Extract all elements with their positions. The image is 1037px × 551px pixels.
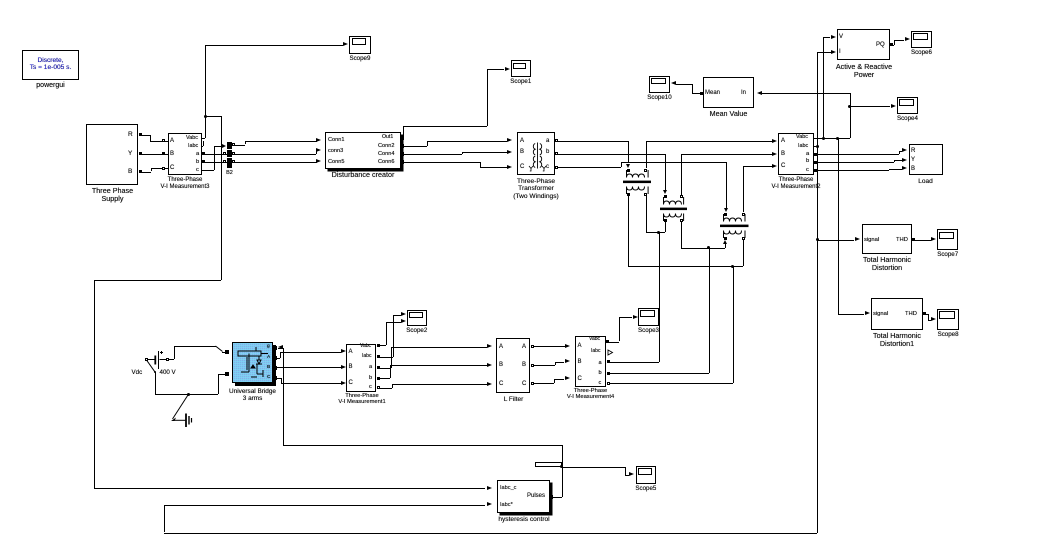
text hc-in2: [500, 502, 513, 508]
block Disturbance creator: [325, 132, 401, 169]
wire THD1 to Scope8: [923, 314, 928, 315]
wire to Mean Value In: [759, 93, 850, 94]
junction Scope4 branch junction: [848, 105, 851, 108]
arrowhead into meas1 B: [341, 365, 346, 369]
wire Mean to Scope10: [692, 93, 703, 94]
port meas4 c out: [607, 382, 610, 385]
1-phase transformer T3: [720, 212, 749, 240]
wire meas3 B stub: [164, 154, 168, 155]
wire meas3 C stub: [164, 168, 168, 169]
wire row c seg1: [558, 167, 621, 168]
arrowhead into Tr C: [507, 165, 512, 169]
text lf-B1: [499, 362, 503, 369]
text meas4-C: [578, 376, 582, 383]
port T1 bottom-right terminal: [644, 193, 647, 196]
block Load: [909, 144, 943, 175]
wire into V input: [823, 37, 830, 38]
wire node b down to meas4 b row: [709, 248, 710, 373]
port T3 bottom-left terminal: [724, 237, 727, 240]
port supply Y port: [139, 152, 142, 155]
wire T2 sec left to node a: [665, 222, 666, 232]
wire row c dive: [726, 162, 727, 208]
text meas2-b: [806, 158, 809, 164]
text meas3-Vabc: [186, 135, 198, 141]
text meas1-a: [369, 364, 372, 370]
wire meas3 c loop to bus top: [202, 170, 214, 171]
wire meas1 Vabc to Scope2 lower: [377, 345, 386, 346]
arrowhead into Scope1: [505, 67, 510, 71]
arrowhead into THD signal: [855, 237, 860, 241]
text bridge-B: [267, 365, 270, 370]
port T2 top-right terminal: [680, 195, 683, 198]
text meas3-a: [196, 151, 199, 157]
text Vdc-label: [132, 370, 143, 377]
text lf-A2: [522, 344, 526, 351]
port bridge minus port: [225, 372, 229, 376]
wire to THD signal: [817, 240, 854, 241]
port Out1 port: [400, 136, 404, 140]
text mv-In: [741, 90, 746, 97]
wire L A to meas4: [531, 346, 565, 347]
wire into bridge plus: [222, 352, 226, 353]
wire into I input: [817, 52, 831, 53]
block Three-Phase Transformer (Two Windings): [517, 132, 555, 175]
port meas1 Iabc out: [377, 355, 380, 358]
text lf-A1: [499, 344, 503, 351]
text bridge-A: [267, 355, 270, 360]
port Mean out port: [700, 92, 703, 95]
arrowhead into Scope6: [905, 37, 910, 41]
text meas2-A: [781, 138, 785, 145]
arrowhead into meas1 C: [341, 381, 346, 385]
arrowhead into Load Y: [902, 158, 907, 162]
port T3 bottom-right terminal: [742, 237, 745, 240]
arrowhead into meas4 C: [565, 376, 570, 380]
wire meas3 a to bus: [202, 154, 227, 155]
port meas3 B port sq: [162, 152, 165, 155]
wire THD to Scope7: [912, 240, 931, 241]
wire T3 sec left feed: [725, 244, 726, 248]
text dc-label: [320, 171, 406, 179]
text dc-Conn2: [378, 143, 394, 149]
wire dc bottom rail: [155, 394, 217, 395]
text tr-b: [546, 149, 549, 156]
wire bridge B out: [277, 367, 341, 368]
text meas3-b: [196, 159, 199, 165]
port L filter B out: [531, 364, 534, 367]
port meas4 Vabc out: [606, 340, 609, 343]
text tr-c: [546, 164, 549, 171]
text hc-label: [488, 516, 560, 523]
block powergui: [22, 50, 79, 80]
diagonal wire into bridge plus: [215, 345, 227, 354]
block Active & Reactive Power: [837, 29, 890, 61]
text lf-C1: [499, 381, 503, 388]
junction node a junction: [657, 231, 660, 234]
arrowhead into L C: [487, 382, 492, 386]
wire pulses branch to Scope5: [562, 467, 625, 468]
text load-B: [911, 166, 915, 173]
wire meas1 Iabc to Scope2 upper: [377, 357, 393, 358]
text supply-R: [128, 131, 133, 138]
wire T3 sec right down: [743, 240, 744, 266]
wire bridge A out: [277, 358, 280, 359]
winding config glyphs: [528, 165, 548, 172]
wire bus to conn3: [232, 154, 316, 155]
wire feedback up: [164, 505, 165, 533]
text tr-A: [520, 138, 524, 145]
arrowhead into T2 top-left: [663, 190, 667, 194]
text meas4-B: [578, 359, 582, 366]
transformer coil icon: [527, 142, 548, 169]
port meas2 c out: [814, 169, 817, 172]
port meas2 b out: [814, 161, 817, 164]
junction pulses-scope5 junction: [560, 465, 563, 468]
arrowhead into Scope10: [671, 81, 676, 85]
wire row a dive: [628, 141, 629, 164]
port meas2 a out: [814, 153, 817, 156]
wire bus to Conn5: [232, 162, 317, 163]
text dc-Conn1: [328, 137, 344, 143]
text bridge-label: [216, 388, 289, 402]
scope Scope9: [349, 36, 370, 54]
wire meas2 b to Load Y: [814, 162, 894, 163]
scope Scope1: [511, 60, 531, 77]
wire PQ to Scope6: [890, 45, 894, 46]
port Conn2 port: [400, 144, 404, 148]
wire V down to THD1: [838, 138, 839, 314]
wire dc to bridge minus: [218, 374, 219, 395]
port L filter C out: [531, 382, 534, 385]
junction node b junction: [707, 246, 710, 249]
text meas2-C: [781, 163, 785, 170]
text load-Y: [911, 157, 915, 164]
arrowhead into Scope5: [629, 472, 634, 476]
wire T2 sec right to node b: [681, 222, 682, 248]
text dc-conn3: [328, 148, 343, 154]
arrowhead into meas4 A: [565, 344, 570, 348]
1-phase transformer T1: [623, 168, 652, 196]
block Universal Bridge: [232, 342, 273, 383]
port meas1 b out: [377, 377, 380, 380]
wire meas3 Iabc stub: [202, 146, 203, 147]
scope Scope2: [407, 310, 428, 326]
port meas3 b out: [202, 160, 205, 163]
text meas3-Iabc: [188, 143, 198, 149]
block L Filter: [496, 338, 530, 394]
text meas2-a: [806, 151, 809, 157]
port meas1 c out: [377, 386, 380, 389]
wire pulses to g: [278, 348, 283, 349]
text meas4-Vabc: [589, 337, 600, 343]
scope Scope7: [937, 229, 958, 250]
arrowhead into THD1 signal: [865, 311, 870, 315]
port bridge B port: [273, 366, 277, 370]
text thd-label: [850, 256, 924, 272]
port bus left mid port: [223, 152, 226, 155]
arrowhead into T1 top-left: [626, 164, 630, 168]
wire row b rise: [681, 154, 682, 195]
wire diagonal to ground: [169, 393, 191, 423]
text tr-B: [520, 149, 524, 156]
block Three-Phase V-I Measurement2: [778, 133, 814, 175]
port THD out port: [912, 238, 915, 241]
junction ground junction: [187, 393, 190, 396]
text bridge-C: [267, 375, 270, 380]
wire row a seg1: [558, 141, 628, 142]
wire L B to meas4: [531, 365, 555, 366]
text meas3-B: [170, 151, 174, 158]
text meas1-label: [332, 393, 392, 406]
wire Conn2 to Tr A: [404, 146, 427, 147]
text supply-B: [128, 168, 132, 175]
junction Vabc branch junction: [204, 115, 207, 118]
port supply B port: [139, 170, 142, 173]
arrowhead into L B: [487, 363, 492, 367]
junction Iabc-THD junction: [816, 238, 819, 241]
wire bottom long feedback: [164, 533, 817, 534]
port T2 top-left terminal: [664, 195, 667, 198]
text meas2-B: [781, 151, 785, 158]
text pq-label: [828, 63, 900, 79]
text meas1-c: [369, 384, 372, 390]
wire row c seg2: [743, 166, 772, 167]
DC voltage source Vdc battery: [140, 342, 200, 398]
wire supply B to meas3 C: [141, 172, 151, 173]
wire Vdc plus to corner: [168, 359, 174, 360]
text thd1-label: [858, 332, 936, 348]
text load-R: [911, 148, 915, 155]
text meas1-A: [349, 349, 353, 356]
text meas2-label: [760, 177, 832, 190]
wire node c down to meas4 c row: [733, 266, 734, 383]
text powergui-label: [14, 82, 87, 90]
wire meas3 Vabc to Scope9: [202, 138, 205, 139]
port T2 bottom-left terminal: [664, 219, 667, 222]
port tr c out: [555, 166, 558, 169]
text hc-Pulses: [527, 493, 545, 500]
arrowhead into hysteresis Iabc_c: [487, 486, 492, 490]
block Three-Phase V-I Measurement1: [346, 344, 376, 392]
wire meas2 c to Load B: [814, 170, 889, 171]
port bus right bot port: [232, 160, 235, 163]
text dc-Out1: [382, 135, 393, 141]
text dc-Conn4: [378, 151, 394, 157]
arrowhead into meas4 B: [565, 359, 570, 363]
junction Vabc-THD1 junction: [836, 137, 839, 140]
arrowhead into Load B: [902, 166, 907, 170]
block Three-Phase V-I Measurement4: [575, 336, 606, 387]
text thd1-THD: [905, 311, 917, 317]
text dc-Conn5: [328, 159, 344, 165]
universal bridge internal circuit icon: [234, 344, 272, 382]
junction Iabc junction: [816, 145, 819, 148]
text meas1-b: [369, 375, 372, 381]
port bridge g port: [273, 346, 277, 350]
arrowhead into Scope2 in2: [401, 319, 406, 323]
wire row b dive: [665, 154, 666, 191]
port meas4 b out: [607, 372, 610, 375]
wire row c rise: [743, 166, 744, 212]
arrowhead into T3 bottom-left: [723, 240, 727, 244]
junction Vabc-Vin junction: [822, 137, 825, 140]
port T3 top-right terminal: [742, 213, 745, 216]
text meas3-c: [196, 167, 199, 173]
meas4 Iabc unconnected out: [607, 349, 614, 356]
arrowhead into meas2 A: [772, 139, 777, 143]
block hysteresis control: [497, 480, 550, 513]
wire T1 sec left down: [628, 196, 629, 266]
port PQ out port: [890, 43, 893, 46]
port bridge C port: [273, 376, 277, 380]
arrowhead into Scope9: [343, 42, 348, 46]
port pulses port: [549, 495, 553, 499]
text lf-label: [496, 396, 531, 403]
bus B2: [227, 142, 232, 169]
port tr a out: [555, 139, 558, 142]
text Vdc-value: [160, 370, 176, 377]
block Total Harmonic Distortion: [862, 224, 913, 254]
text thd1-signal: [873, 311, 888, 317]
port THD1 out port: [923, 312, 926, 315]
wire node a down to meas4 a row: [659, 232, 660, 362]
wire meas4 c row: [607, 383, 733, 384]
text meas4-c: [599, 380, 602, 386]
wire meas1 b to L filter: [377, 378, 390, 379]
scope Scope8: [937, 309, 959, 330]
port Vdc right port: [166, 358, 169, 361]
wire meas1 c to L filter: [377, 388, 392, 389]
text thd-THD: [896, 237, 908, 243]
wire supply R to meas3 A: [141, 135, 150, 136]
arrowhead into bus top-left: [222, 144, 226, 148]
wire T1 sec right to node a: [646, 196, 647, 232]
port meas3 a out: [202, 152, 205, 155]
wire meas3 b to bus: [202, 162, 227, 163]
port T1 top-left terminal: [627, 169, 630, 172]
wire delta bottom link: [628, 266, 743, 267]
arrowhead into meas2 B: [772, 152, 777, 156]
wire L C to meas4: [531, 383, 554, 384]
wire feedback to hysteresis: [164, 505, 485, 506]
wire meas4 b row: [607, 373, 709, 374]
arrowhead into Scope8: [931, 317, 936, 321]
wire meas4 Vabc to Scope3: [606, 342, 619, 343]
text tr-a: [546, 138, 549, 145]
arrowhead into Conn5: [316, 159, 321, 163]
scope Scope6: [911, 31, 932, 48]
text meas2-c: [806, 167, 809, 173]
text meas4-a: [599, 360, 602, 366]
wire to Scope4: [850, 106, 891, 107]
port meas4 a out: [607, 360, 610, 363]
text meas3-C: [170, 165, 174, 172]
block Universal Bridge shadow: [235, 345, 276, 386]
port Conn6 port: [400, 160, 404, 164]
block Mean Value: [703, 77, 754, 108]
scope Scope4: [897, 97, 918, 115]
wire into bridge minus: [218, 374, 226, 375]
wire meas2 a to Load R: [814, 154, 899, 155]
block Three Phase Supply: [86, 124, 138, 185]
port L filter A out: [531, 345, 534, 348]
port meas1 a out: [377, 366, 380, 369]
port bus left bot port: [223, 160, 226, 163]
text powergui-text: [23, 57, 78, 72]
text mv-label: [698, 110, 759, 118]
port T3 top-left terminal: [724, 213, 727, 216]
arrowhead into T3 top-left: [724, 208, 728, 212]
text meas4-b: [599, 370, 602, 376]
text meas4-label: [558, 388, 623, 401]
text meas1-B: [349, 364, 353, 371]
text meas2-Iabc: [798, 143, 808, 149]
text B2-label: [223, 170, 236, 176]
port meas3 C port sq: [162, 167, 165, 170]
text tr-C: [520, 164, 524, 171]
wire V up to P&Q: [823, 37, 824, 138]
wire V up to Mean/Scope4: [850, 93, 851, 138]
arrowhead into Scope7: [931, 237, 936, 241]
port T2 bottom-right terminal: [680, 219, 683, 222]
text meas1-C: [349, 380, 353, 387]
arrowhead into meas1 A: [341, 349, 346, 353]
arrowhead into Conn1: [316, 138, 321, 142]
text transformer-label: [496, 178, 576, 200]
wire I down long: [817, 147, 818, 533]
wire Vdc neg leg down: [155, 372, 156, 394]
arrowhead into L A: [487, 344, 492, 348]
text thd-signal: [864, 237, 879, 243]
port Vdc left port: [145, 358, 148, 361]
arrowhead into meas2 C: [772, 164, 777, 168]
arrowhead into V port: [831, 35, 836, 39]
text meas4-Iabc: [591, 349, 600, 355]
port bus right mid port: [232, 152, 235, 155]
port bridge A port: [273, 356, 277, 360]
wire to THD1 signal: [838, 314, 865, 315]
text meas3-A: [170, 138, 174, 145]
arrowhead into Scope3: [633, 315, 638, 319]
text dc-Conn6: [378, 159, 394, 165]
port bus right top port: [232, 143, 235, 146]
arrowhead into Tr B: [507, 150, 512, 154]
1-phase transformer T2: [660, 195, 687, 223]
text pq-V: [839, 34, 843, 41]
wire bridge C out: [277, 378, 281, 379]
wire meas2 Vabc stub: [814, 138, 850, 139]
text meas4-A: [578, 343, 582, 350]
text mv-Mean: [705, 90, 720, 97]
text meas2-Vabc: [796, 134, 808, 140]
wire meas2 Iabc stub: [814, 146, 817, 147]
text load-label: [898, 178, 953, 185]
arrowhead into hysteresis Iabc*: [487, 502, 492, 506]
wire Conn4 to Tr B: [404, 154, 462, 155]
wire bus to Conn1: [232, 145, 245, 146]
scope Scope5: [636, 466, 657, 484]
wire meas1 a to L filter: [377, 368, 391, 369]
wire Out1 to Scope1: [403, 126, 404, 136]
wire supply Y to meas3 B: [141, 154, 163, 155]
port Conn4 port: [400, 152, 404, 156]
scope Scope3: [638, 308, 659, 326]
port bridge plus port: [225, 350, 229, 354]
arrowhead into Scope2 in1: [401, 312, 406, 316]
arrowhead into Tr A: [507, 138, 512, 142]
text meas3-label: [151, 177, 219, 190]
text lf-C2: [522, 381, 526, 388]
